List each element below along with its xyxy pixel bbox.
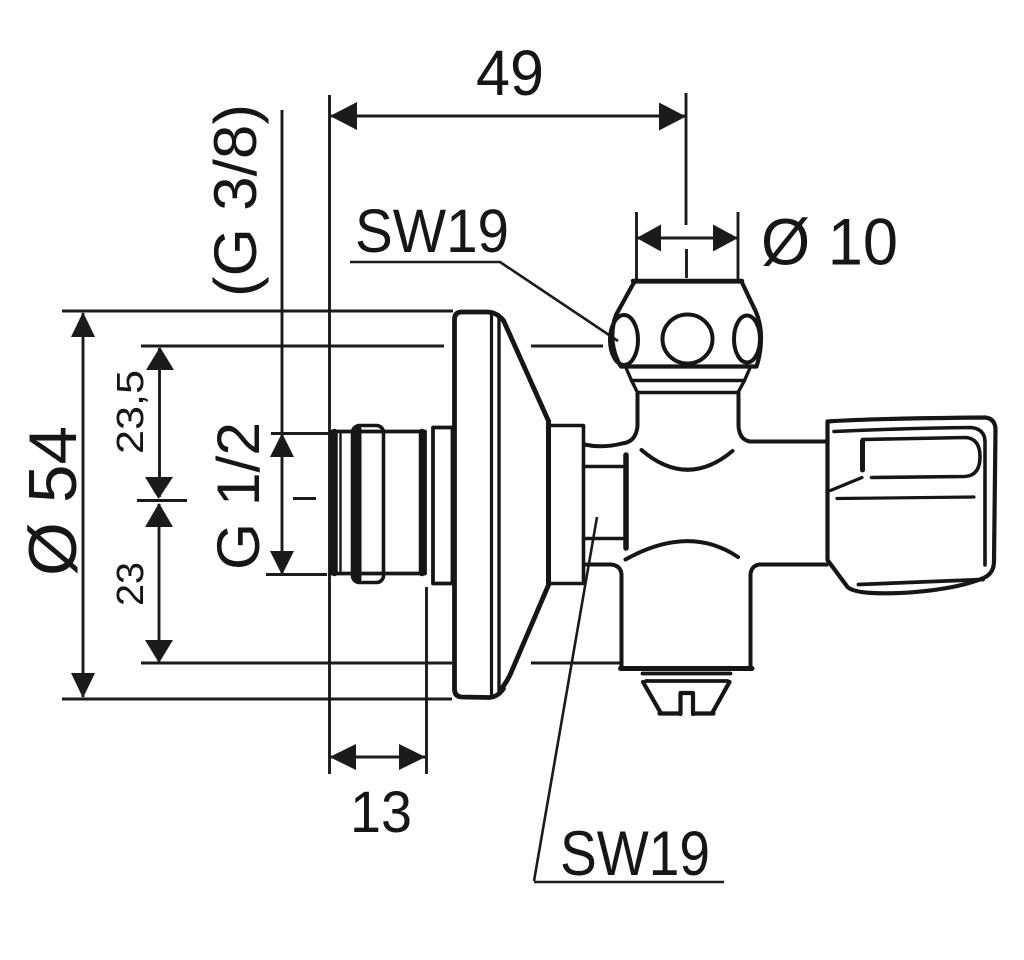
svg-text:49: 49 xyxy=(476,37,544,109)
svg-text:SW19: SW19 xyxy=(355,197,509,265)
svg-text:13: 13 xyxy=(350,780,412,845)
svg-text:SW19: SW19 xyxy=(560,819,710,889)
svg-text:Ø 54: Ø 54 xyxy=(15,426,91,576)
svg-text:23: 23 xyxy=(110,562,152,606)
svg-text:(G 3/8): (G 3/8) xyxy=(202,104,269,297)
svg-text:23,5: 23,5 xyxy=(110,370,152,454)
svg-text:Ø 10: Ø 10 xyxy=(761,205,898,279)
svg-text:G 1/2: G 1/2 xyxy=(205,422,272,570)
